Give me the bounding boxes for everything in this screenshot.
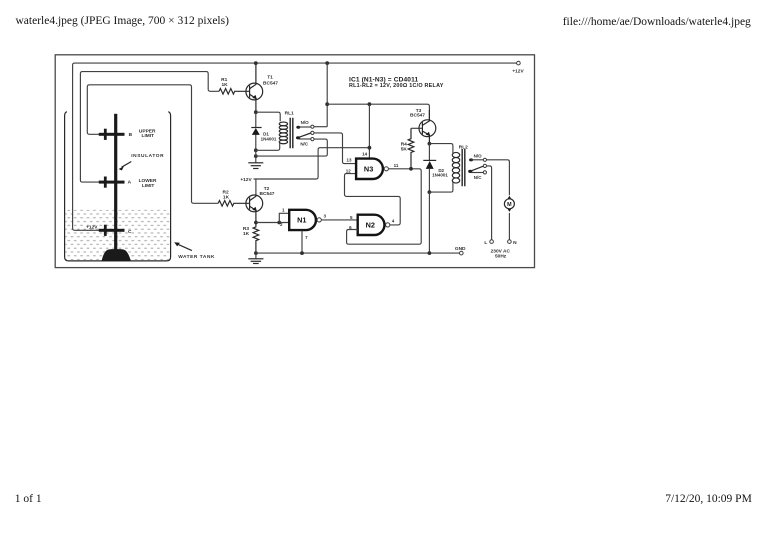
RL2 N/O contact [469,158,486,161]
relay RL2 coil [429,144,459,193]
electrode C (+12V) [99,225,125,236]
svg-text:1N4001: 1N4001 [432,172,448,177]
wire probe A to R1 [80,72,219,183]
footer left [15,493,42,505]
schematic border frame [55,55,534,268]
RL1 N/C contact [299,138,314,141]
svg-text:5: 5 [350,215,353,220]
svg-text:INSULATOR: INSULATOR [131,153,164,159]
svg-text:1N4001: 1N4001 [261,137,277,142]
svg-text:N/O: N/O [301,120,310,125]
svg-text:+12V: +12V [86,225,98,231]
resistor R4 [408,128,414,169]
footer right [665,493,752,505]
N2 output bubble [386,223,390,227]
N1 output bubble [317,218,321,222]
svg-text:N/O: N/O [474,153,483,158]
svg-text:1K: 1K [222,82,229,88]
svg-text:N3: N3 [364,164,373,173]
svg-text:BC547: BC547 [260,191,275,197]
wire +12V label to sub-rail [254,148,370,179]
wire R4 to T3 base [411,127,422,129]
svg-text:M: M [507,202,512,208]
svg-text:7: 7 [305,235,308,240]
node T3 emitter junction [428,142,432,146]
svg-text:N2: N2 [366,220,375,229]
svg-text:C: C [128,229,132,235]
wire RL2 N/O to motor [487,160,510,196]
svg-text:N/C: N/C [474,175,483,180]
svg-text:14: 14 [362,152,368,157]
svg-text:LIMIT: LIMIT [142,133,155,139]
svg-text:RL1-RL2 = 12V, 200Ω 1C/O RELAY: RL1-RL2 = 12V, 200Ω 1C/O RELAY [349,83,444,89]
svg-text:BC547: BC547 [410,113,425,119]
svg-text:12: 12 [346,169,352,174]
svg-text:13: 13 [346,158,352,163]
rod base blob [102,249,131,261]
junction on +12V rail at relay branch [325,61,329,65]
wire N1 input bracket [279,213,289,222]
node N1 input junction [277,221,281,225]
resistor R2 [218,201,249,207]
svg-text:1K: 1K [223,194,230,200]
svg-text:RL1: RL1 [285,110,294,116]
wire motor to N terminal [508,213,510,240]
resistor R1 [219,89,250,95]
nand gate N3 [356,159,383,179]
L terminal [490,240,494,244]
wire +12V sub-rail to T3 collector [327,104,429,121]
svg-text:4: 4 [392,218,395,223]
wire N3 output to N2 pin 6 [347,169,422,244]
ground under R3 [248,259,263,264]
svg-text:3: 3 [324,214,327,219]
svg-text:1: 1 [282,207,285,212]
wire RL2 armature to L terminal [487,166,492,240]
ground under D1 [248,163,263,169]
nand gate N2 [358,215,385,235]
ground rail [256,252,460,254]
resistor R3 [253,223,259,254]
node D2/RL2 bottom junction [428,190,432,194]
svg-text:+12V: +12V [512,69,524,75]
wire D1 junction to ground [255,150,257,162]
svg-text:RL2: RL2 [459,144,468,150]
svg-text:LIMIT: LIMIT [142,183,155,189]
svg-text:5K: 5K [401,146,408,152]
transistor T1 BC547 [246,63,263,112]
wire T2 emitter to N1 inputs [256,222,279,224]
svg-text:50Hz: 50Hz [495,253,507,259]
nand gate N1 [289,210,316,230]
transistor T3 BC547 [419,110,436,144]
svg-text:WATER TANK: WATER TANK [178,254,215,260]
relay RL1 core [290,118,293,149]
water in tank [65,210,170,260]
node +12V label feed joins pin14 line [368,146,372,150]
GND terminal [460,251,464,255]
header left [16,15,229,27]
header right [563,16,751,28]
+12V terminal top right [517,61,521,65]
svg-text:11: 11 [394,163,399,168]
svg-text:N1: N1 [297,216,306,225]
transistor T2 BC547 [246,195,263,223]
RL2 armature [468,164,486,173]
node R4 bottom on output wire [409,167,413,171]
node T1 emitter junction [254,110,258,114]
node R3 bottom on ground rail [254,251,258,255]
N3 output bubble [384,167,388,171]
node pin14 branch [368,102,372,106]
motor M [504,196,514,212]
node pin7 on ground rail [300,251,304,255]
wire RL1 armature to N3 pin 13 [314,133,356,164]
wire N2 output feedback to N3 pin 12 [345,174,401,225]
svg-text:T1: T1 [267,75,273,81]
wire RL1 N/C to ground net [256,139,327,156]
electrode A (lower limit) [99,177,125,188]
svg-text:B: B [129,132,133,138]
node T2 emitter junction [254,221,258,225]
wire pin 14 of N3 [368,104,370,158]
svg-text:N/C: N/C [300,142,309,147]
node on ground rail [428,251,432,255]
wire N1 output to N2 pin 5 [321,219,357,221]
RL2 N/C contact [471,171,486,174]
N terminal [508,240,512,244]
svg-text:L: L [484,240,487,246]
wire T2 collector [255,179,257,195]
node N/C return junction [254,154,258,158]
insulator rod [114,114,117,251]
svg-text:1K: 1K [243,231,250,237]
svg-text:N: N [513,240,517,246]
relay RL2 core [462,149,465,186]
wire D2 junction down to ground rail [428,192,430,253]
RL1 N/O contact [296,125,327,129]
node +12V sub-rail branch [325,102,329,106]
junction on +12V rail at T1 collector [254,61,258,65]
electrode B (upper limit) [99,129,125,140]
svg-text:A: A [128,180,132,186]
wire RL1 N/O up to +12V branch [326,63,328,127]
wire probe B to R2 [87,85,218,204]
wire stub to ground symbol [255,253,257,259]
diode D1 1N4001 [251,112,261,150]
water tank [65,112,171,261]
svg-text:GND: GND [455,246,466,252]
node +12V supply wire to probe C [73,63,517,230]
RL1 armature [296,131,314,139]
svg-text:BC547: BC547 [263,81,278,87]
relay RL1 coil [256,112,288,150]
diode D2 1N4001 [423,144,436,193]
wire N1 pin 7 to ground rail [301,230,303,253]
svg-text:+12V: +12V [240,177,252,183]
node D1/RL1 bottom junction [254,148,258,152]
